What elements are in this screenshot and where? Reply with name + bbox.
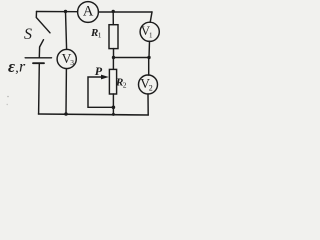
svg-text:r: r: [19, 59, 26, 76]
svg-text:ε: ε: [8, 57, 15, 76]
svg-text:3: 3: [70, 58, 74, 67]
svg-text:1: 1: [149, 31, 153, 39]
svg-text:2: 2: [123, 80, 127, 89]
svg-text:A: A: [83, 4, 94, 20]
svg-text:P: P: [95, 64, 103, 78]
svg-text:1: 1: [98, 30, 102, 39]
svg-text:S: S: [24, 26, 32, 43]
svg-text:2: 2: [149, 83, 153, 92]
